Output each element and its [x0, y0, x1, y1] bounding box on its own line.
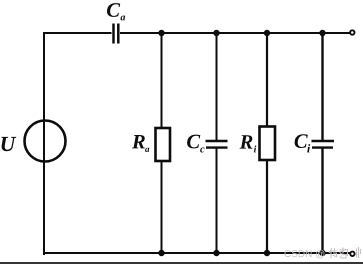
resistor Ra: [156, 128, 171, 161]
label Ri: [240, 135, 257, 152]
wire top node: [43, 32, 352, 34]
capacitor Ca: [114, 24, 119, 44]
junction top Ci: [319, 30, 325, 36]
wire bottom common node: [44, 252, 352, 254]
label Ci: [295, 134, 311, 152]
junction top Cc: [213, 30, 219, 36]
junction bottom Cc: [213, 250, 219, 256]
voltage source U: [25, 121, 66, 162]
wire branch Ri: [266, 33, 268, 253]
junction top Ri: [264, 30, 270, 36]
terminal output bottom: [350, 252, 354, 256]
junction bottom Ra: [158, 250, 164, 256]
wire branch Ci: [321, 33, 323, 253]
resistor Ri: [260, 127, 276, 161]
label Cc: [187, 135, 204, 153]
wire branch Ra: [161, 33, 163, 253]
wire branch Cc: [216, 33, 218, 253]
wire left source branch: [43, 32, 45, 255]
capacitor Cc: [206, 141, 228, 148]
junction bottom Ci: [319, 250, 325, 256]
junction top Ra: [158, 30, 164, 36]
label Ca: [107, 3, 125, 20]
terminal output top: [350, 30, 354, 34]
junction bottom Ri: [264, 250, 270, 256]
capacitor Ci: [312, 141, 335, 148]
label U: [2, 137, 17, 151]
label Ra: [132, 135, 149, 152]
